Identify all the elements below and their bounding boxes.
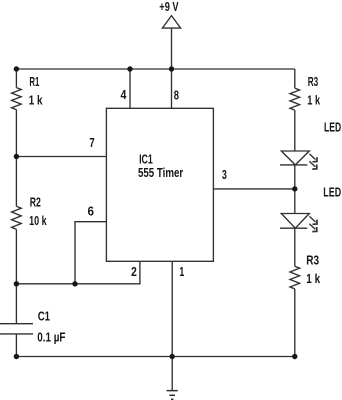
wire pin6: [75, 222, 106, 284]
wire right rail top: [294, 69, 296, 88]
svg-text:LED: LED: [323, 185, 341, 200]
svg-text:+9 V: +9 V: [159, 0, 179, 14]
svg-text:1 k: 1 k: [306, 271, 320, 286]
node dot pin6 y284: [72, 281, 77, 286]
wire left rail top segment: [15, 69, 17, 88]
power symbol +9V triangle: [162, 16, 180, 29]
wire pin3: [213, 188, 294, 190]
node dot bottom-left: [14, 354, 19, 359]
wire left rail R2 to C1: [15, 229, 17, 323]
svg-text:C1: C1: [38, 309, 50, 324]
svg-text:10 k: 10 k: [29, 213, 47, 228]
svg-text:7: 7: [89, 135, 94, 150]
ground: [167, 391, 178, 400]
wire top rail: [16, 68, 294, 70]
resistor R3 bottom: [290, 266, 300, 289]
wire LED1 to LED2: [294, 165, 296, 214]
node dot pin7 left rail: [14, 154, 19, 159]
svg-text:4: 4: [121, 87, 128, 102]
resistor R1: [12, 88, 22, 110]
svg-text:555 Timer: 555 Timer: [138, 165, 183, 180]
wire pin2: [16, 261, 139, 284]
svg-text:1 k: 1 k: [29, 93, 43, 108]
op-amp U1 IC box: [106, 108, 213, 261]
svg-text:0.1 µF: 0.1 µF: [37, 329, 65, 344]
node dot pin8 rail: [169, 66, 174, 71]
wire pin7: [16, 156, 106, 158]
wire C1 to bottom rail: [15, 334, 17, 357]
wire +9V to top rail: [171, 28, 173, 69]
svg-text:2: 2: [131, 264, 137, 279]
wire pin1 to ground: [171, 261, 173, 390]
capacitor C1: [0, 324, 33, 334]
wire left rail R1 to R2: [15, 110, 17, 207]
wire bottom rail: [16, 356, 294, 358]
svg-text:1 k: 1 k: [307, 92, 320, 107]
svg-text:6: 6: [88, 203, 95, 218]
node dot bottom-right: [292, 354, 297, 359]
node dot left y284: [14, 281, 19, 286]
svg-text:3: 3: [222, 167, 227, 182]
LED D1: [280, 151, 317, 169]
node dot pin4 rail: [127, 66, 132, 71]
svg-text:8: 8: [174, 87, 179, 102]
svg-text:R2: R2: [30, 194, 41, 209]
wire LED2 to R3 bottom: [294, 228, 296, 266]
wire pin8: [171, 69, 173, 108]
svg-text:LED: LED: [324, 120, 341, 135]
node dot pin3 LED: [292, 186, 297, 191]
svg-text:R1: R1: [29, 74, 39, 89]
wire pin4: [129, 69, 131, 108]
wire R3 bottom to bottom rail: [294, 289, 296, 357]
resistor R3 top: [290, 88, 300, 110]
svg-text:R3: R3: [306, 252, 319, 267]
wire R3 to LED1: [294, 110, 296, 151]
resistor R2: [12, 206, 22, 229]
svg-text:R3: R3: [308, 74, 319, 89]
node dot top-left: [14, 66, 19, 71]
svg-text:1: 1: [179, 264, 184, 279]
LED D2: [280, 214, 317, 232]
node dot pin1 bottom: [170, 354, 175, 359]
